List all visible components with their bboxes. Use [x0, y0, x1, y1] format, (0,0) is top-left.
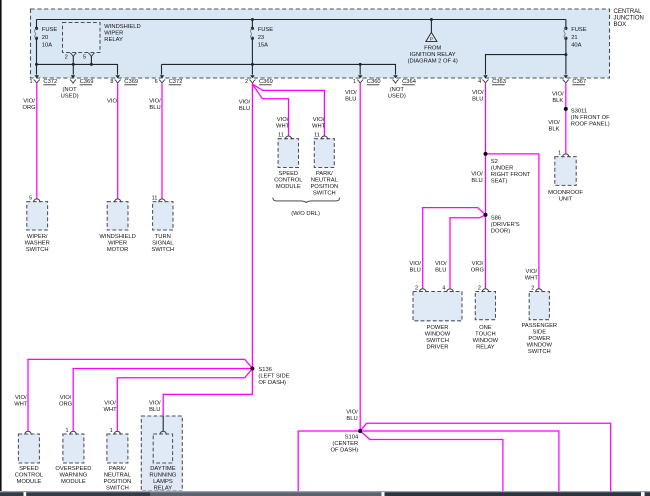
svg-text:C369: C369: [80, 79, 94, 85]
central junction box C-JB: [31, 9, 610, 78]
svg-text:C364: C364: [402, 79, 417, 85]
svg-text:RELAY: RELAY: [154, 486, 173, 492]
svg-text:ORG: ORG: [471, 268, 485, 274]
svg-text:WIPER/: WIPER/: [27, 234, 48, 240]
svg-text:DOOR): DOOR): [491, 228, 510, 234]
svg-text:(W/O DRL): (W/O DRL): [291, 211, 320, 217]
svg-text:2: 2: [531, 285, 534, 291]
svg-text:VIO/: VIO/: [548, 120, 560, 126]
svg-text:5: 5: [83, 55, 86, 61]
svg-text:BLU: BLU: [239, 106, 250, 112]
connector C369 not used: [61, 75, 94, 99]
connector C364 not used: [388, 75, 417, 99]
svg-text:RUNNING: RUNNING: [149, 473, 177, 479]
svg-text:BLU: BLU: [435, 268, 446, 274]
svg-text:SEAT): SEAT): [491, 178, 508, 184]
svg-text:BOX: BOX: [614, 22, 627, 28]
svg-text:(CENTER: (CENTER: [332, 441, 358, 447]
svg-text:S104: S104: [345, 435, 359, 441]
fuse 21 40A: [486, 20, 587, 75]
wire VIO/BLU from S136 to daytime running lamps relay: [149, 369, 252, 417]
svg-text:VIO/: VIO/: [472, 261, 484, 267]
svg-text:VIO/: VIO/: [277, 117, 289, 123]
wire mid bus from C372 to C364: [162, 63, 396, 75]
svg-text:FROM: FROM: [424, 46, 441, 52]
fuse 20 10A: [34, 20, 57, 65]
svg-text:POWER: POWER: [528, 336, 550, 342]
svg-text:CENTRAL: CENTRAL: [614, 9, 643, 15]
wire from S104 right branch 2: [360, 431, 559, 492]
wire VIO/BLU from C360 pin 1 down to splice S104: [345, 84, 360, 430]
svg-text:TOUCH: TOUCH: [475, 332, 496, 338]
wire VIO/BLK from C367 through S3011 to moonroof unit: [548, 84, 566, 154]
relay pin 2: [65, 53, 77, 64]
svg-text:C372: C372: [43, 79, 57, 85]
fuse 23 15A: [250, 18, 273, 64]
svg-text:WINDSHIELD: WINDSHIELD: [99, 234, 135, 240]
svg-text:VIO/: VIO/: [15, 395, 27, 401]
splice S136: [250, 367, 289, 387]
speed control module bottom: [15, 431, 44, 485]
svg-text:USED): USED): [388, 94, 406, 100]
svg-text:20: 20: [42, 35, 48, 41]
connector C372 pin 1: [35, 75, 40, 78]
svg-text:11: 11: [152, 195, 158, 201]
svg-text:BLU: BLU: [345, 97, 356, 103]
svg-text:C363: C363: [492, 79, 506, 85]
svg-text:VIO/: VIO/: [471, 172, 483, 178]
wire VIO/ORG to wiper washer switch: [22, 84, 36, 199]
svg-text:POSITION: POSITION: [310, 184, 338, 190]
svg-text:VIO/: VIO/: [149, 99, 161, 105]
park neutral position switch pin 11 (w/o drl): [310, 133, 338, 197]
svg-text:WHT: WHT: [103, 407, 117, 413]
svg-text:FUSE: FUSE: [258, 27, 274, 33]
svg-text:UNIT: UNIT: [559, 197, 573, 203]
svg-text:OVERSPEED: OVERSPEED: [55, 466, 91, 472]
splice S104: [330, 410, 362, 454]
wire from S104 right branch 1: [360, 423, 610, 492]
svg-text:SWITCH: SWITCH: [151, 247, 174, 253]
svg-text:FUSE: FUSE: [571, 27, 587, 33]
svg-text:CONTROL: CONTROL: [15, 473, 44, 479]
svg-text:WIPER: WIPER: [104, 31, 123, 37]
svg-text:ROOF PANEL): ROOF PANEL): [571, 122, 610, 128]
svg-text:(LEFT SIDE: (LEFT SIDE: [258, 374, 289, 380]
svg-text:POWER: POWER: [427, 325, 449, 331]
svg-text:VIO/: VIO/: [60, 395, 72, 401]
svg-text:POSITION: POSITION: [104, 479, 132, 485]
wire VIO/WHT from S136 to park neutral position switch: [103, 369, 252, 431]
svg-text:1: 1: [110, 428, 113, 434]
svg-text:RELAY: RELAY: [476, 345, 495, 351]
wire from S104 right branch 3: [360, 431, 503, 492]
svg-text:SIGNAL: SIGNAL: [152, 241, 174, 247]
wire VIO/BLU from C363 pin 4 through S2 and S86 to one touch window relay: [471, 84, 486, 289]
turn signal switch pin 11: [151, 195, 174, 253]
svg-text:SWITCH: SWITCH: [26, 247, 49, 253]
one touch window relay pin 2: [473, 285, 499, 350]
svg-text:21: 21: [571, 35, 577, 41]
svg-text:BLU: BLU: [471, 178, 482, 184]
svg-text:VIO/: VIO/: [104, 401, 116, 407]
svg-text:DAYTIME: DAYTIME: [150, 466, 175, 472]
power window switch driver pins 2 and 4: [413, 285, 462, 350]
svg-text:WARNING: WARNING: [59, 473, 87, 479]
svg-text:VIO/: VIO/: [239, 100, 251, 106]
svg-text:VIO/: VIO/: [345, 90, 357, 96]
svg-text:SPEED: SPEED: [278, 171, 298, 177]
wire VIO/WHT from S2 to passenger side power window switch: [486, 154, 539, 289]
svg-text:VIO/: VIO/: [552, 92, 564, 98]
svg-text:2: 2: [478, 285, 481, 291]
svg-text:WINDOW: WINDOW: [473, 338, 499, 344]
svg-text:VIO/: VIO/: [472, 90, 484, 96]
wire sub-bus below fuse 20 and relay: [35, 63, 118, 75]
svg-text:FUSE: FUSE: [42, 27, 58, 33]
svg-text:SWITCH: SWITCH: [528, 349, 551, 355]
svg-text:8: 8: [110, 79, 113, 85]
svg-text:BLU: BLU: [149, 407, 160, 413]
svg-text:4: 4: [442, 285, 445, 291]
svg-text:C367: C367: [572, 79, 586, 85]
svg-text:BLU: BLU: [149, 105, 160, 111]
wire VIO/WHT branch to park neutral position switch: [252, 84, 325, 136]
svg-text:SWITCH: SWITCH: [313, 191, 336, 197]
svg-text:40A: 40A: [571, 42, 581, 48]
svg-text:(NOT: (NOT: [390, 87, 405, 93]
wire VIO/WHT branch to speed control module: [252, 84, 289, 136]
connector C360 pin 1: [358, 75, 363, 78]
svg-text:ORG: ORG: [22, 105, 36, 111]
svg-text:LAMPS: LAMPS: [153, 479, 173, 485]
svg-text:VIO/: VIO/: [346, 410, 358, 416]
svg-text:1: 1: [558, 150, 561, 156]
bus wire from fuse 20 to fuse 21: [37, 19, 566, 21]
connector C369 pin 2: [250, 75, 255, 78]
svg-text:MODULE: MODULE: [16, 479, 41, 485]
wire VIO to windshield wiper motor: [107, 84, 118, 199]
svg-text:10A: 10A: [42, 42, 52, 48]
svg-text:WHT: WHT: [312, 124, 326, 130]
connector C363 pin 4: [483, 75, 488, 78]
svg-text:OF DASH): OF DASH): [330, 448, 358, 454]
svg-text:C369: C369: [259, 79, 273, 85]
svg-text:WINDSHIELD: WINDSHIELD: [104, 24, 140, 30]
svg-text:PARK/: PARK/: [316, 171, 333, 177]
splice S2: [484, 152, 531, 184]
svg-text:(IN FRONT OF: (IN FRONT OF: [571, 115, 610, 121]
svg-text:PARK/: PARK/: [109, 466, 126, 472]
daytime running lamps relay: [141, 416, 182, 492]
svg-text:C360: C360: [367, 79, 381, 85]
svg-text:C372: C372: [169, 79, 183, 85]
windshield wiper relay: [63, 23, 141, 53]
svg-text:2: 2: [415, 285, 418, 291]
speed control module pin 11 (w/o drl): [274, 133, 303, 191]
svg-text:VIO/: VIO/: [149, 401, 161, 407]
svg-text:(DIAGRAM 2 OF 4): (DIAGRAM 2 OF 4): [408, 59, 458, 65]
svg-text:WHT: WHT: [525, 275, 539, 281]
wire VIO/BLU from C369 pin 2 down to splice S136: [239, 84, 253, 367]
bottom window bar: [0, 491, 650, 496]
svg-text:CONTROL: CONTROL: [274, 178, 303, 184]
svg-text:WINDOW: WINDOW: [527, 343, 553, 349]
relay pin 5: [83, 53, 95, 64]
svg-text:SWITCH: SWITCH: [426, 338, 449, 344]
svg-text:VIO/: VIO/: [525, 269, 537, 275]
svg-text:WASHER: WASHER: [25, 241, 50, 247]
svg-text:(NOT: (NOT: [63, 87, 78, 93]
wiper washer switch pin 5: [25, 195, 50, 253]
svg-text:TURN: TURN: [155, 234, 171, 240]
wire VIO/ORG from S136 to overspeed warning module: [59, 369, 252, 431]
svg-text:1: 1: [66, 428, 69, 434]
svg-text:VIO/: VIO/: [313, 117, 325, 123]
svg-text:4: 4: [478, 79, 481, 85]
wire VIO/BLU to turn signal switch: [149, 84, 162, 199]
connector C369 pin 8: [115, 75, 120, 78]
svg-text:DRIVER: DRIVER: [427, 345, 449, 351]
svg-text:MODULE: MODULE: [276, 184, 301, 190]
svg-text:RELAY: RELAY: [104, 37, 123, 43]
svg-text:MOTOR: MOTOR: [107, 247, 128, 253]
svg-text:C369: C369: [124, 79, 138, 85]
svg-text:VIO/: VIO/: [435, 261, 447, 267]
svg-text:NEUTRAL: NEUTRAL: [311, 178, 339, 184]
svg-text:S3011: S3011: [571, 109, 587, 115]
svg-text:RIGHT FRONT: RIGHT FRONT: [491, 172, 531, 178]
splice S3011: [564, 107, 610, 128]
svg-text:BLU: BLU: [472, 97, 483, 103]
svg-text:1: 1: [353, 79, 356, 85]
svg-text:BLU: BLU: [410, 268, 421, 274]
svg-text:5: 5: [29, 195, 32, 201]
svg-text:WIPER: WIPER: [108, 241, 127, 247]
svg-text:11: 11: [314, 133, 320, 139]
svg-text:BLK: BLK: [549, 127, 560, 133]
svg-text:ONE: ONE: [479, 325, 492, 331]
connector C367: [564, 75, 569, 78]
svg-text:MOONROOF: MOONROOF: [548, 190, 583, 196]
svg-text:ORG: ORG: [59, 402, 73, 408]
svg-text:VIO/: VIO/: [23, 99, 35, 105]
wire VIO/BLU from S86 to power window switch driver pin 4: [435, 215, 486, 289]
svg-text:11: 11: [278, 133, 284, 139]
svg-text:PASSENGER: PASSENGER: [521, 323, 557, 329]
svg-text:VIO: VIO: [107, 99, 117, 105]
svg-text:BLU: BLU: [346, 416, 357, 422]
svg-text:SIDE: SIDE: [533, 330, 547, 336]
svg-text:P: P: [430, 37, 433, 42]
svg-text:VIO/: VIO/: [409, 261, 421, 267]
splice S86: [484, 213, 520, 235]
w/o drl brace: [273, 198, 340, 217]
from ignition relay arrow: [408, 18, 458, 65]
page left border: [0, 0, 2, 492]
wire VIO/WHT from S136 to speed control module: [14, 359, 252, 431]
svg-text:USED): USED): [61, 94, 79, 100]
connector C372 pin 6: [160, 75, 165, 78]
svg-text:S86: S86: [491, 215, 501, 221]
svg-text:JUNCTION: JUNCTION: [614, 16, 644, 22]
svg-text:S2: S2: [491, 159, 498, 165]
svg-text:WHT: WHT: [14, 402, 28, 408]
svg-text:BLK: BLK: [552, 98, 563, 104]
wire VIO/BLU from S86 to power window switch driver pin 2: [409, 208, 485, 289]
svg-text:6: 6: [155, 79, 158, 85]
svg-text:WINDOW: WINDOW: [425, 332, 451, 338]
svg-text:MODULE: MODULE: [61, 479, 86, 485]
wire from S104 left branch: [298, 431, 360, 492]
svg-text:1: 1: [29, 79, 32, 85]
svg-text:(UNDER: (UNDER: [491, 165, 514, 171]
svg-text:OF DASH): OF DASH): [258, 380, 286, 386]
svg-text:15A: 15A: [258, 42, 268, 48]
svg-text:WHT: WHT: [276, 124, 290, 130]
passenger side power window switch pin 2: [521, 285, 557, 355]
svg-text:23: 23: [258, 35, 264, 41]
svg-text:(DRIVER'S: (DRIVER'S: [491, 222, 520, 228]
windshield wiper motor: [99, 199, 135, 253]
svg-text:2: 2: [245, 79, 248, 85]
svg-text:SWITCH: SWITCH: [106, 486, 129, 492]
svg-text:NEUTRAL: NEUTRAL: [104, 473, 132, 479]
svg-text:S136: S136: [258, 367, 272, 373]
overspeed warning module pin 1: [55, 428, 91, 485]
svg-text:SPEED: SPEED: [19, 466, 39, 472]
svg-text:IGNITION RELAY: IGNITION RELAY: [410, 52, 456, 58]
moonroof unit pin 1: [548, 150, 583, 202]
park neutral position switch bottom pin 1: [104, 428, 132, 492]
svg-text:2: 2: [65, 55, 68, 61]
